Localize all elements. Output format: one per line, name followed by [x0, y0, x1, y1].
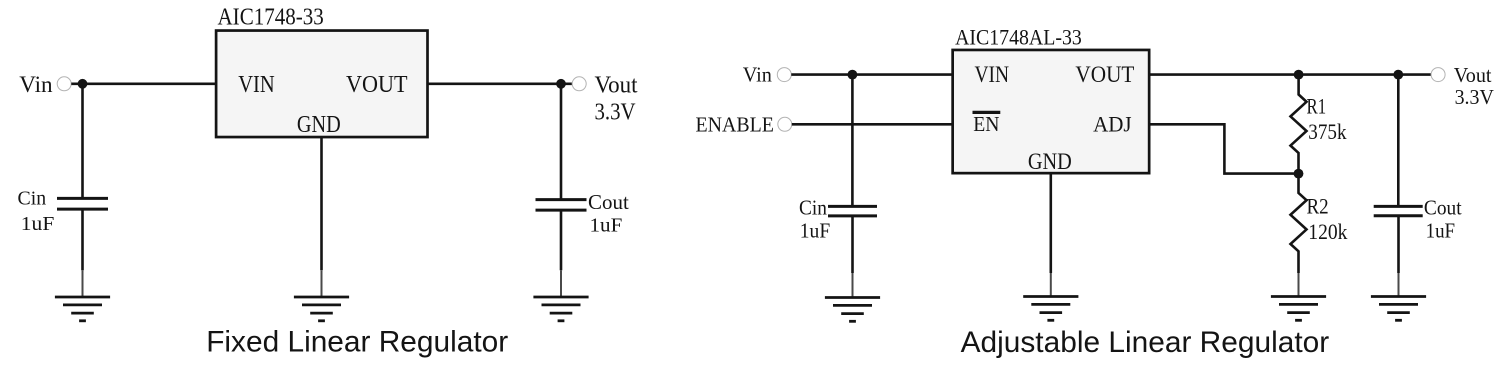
svg-text:1uF: 1uF [1426, 219, 1456, 243]
ground symbol under U1 GND [294, 297, 349, 321]
wire junction down to Cout (right) [1397, 75, 1400, 206]
junction node Vin/Cin [78, 79, 88, 89]
ground symbol under Cin (right) [825, 298, 880, 322]
wire U1 GND to ground [320, 138, 323, 271]
terminal Vout (open circle) [572, 77, 586, 91]
junction node VOUT/R1 [1294, 70, 1304, 80]
junction node R1/R2/ADJ [1294, 169, 1304, 179]
wire U2 ADJ to R1/R2 junction [1151, 124, 1299, 173]
junction node VOUT/Cout (right) [1393, 70, 1403, 80]
svg-text:VIN: VIN [238, 71, 275, 98]
svg-text:1uF: 1uF [800, 219, 830, 243]
svg-text:1uF: 1uF [590, 215, 623, 237]
junction node Vin/Cin (right) [848, 70, 858, 80]
terminal Vin (open circle) [57, 77, 71, 91]
svg-text:VOUT: VOUT [346, 71, 408, 98]
wire Cout to ground (right) [1397, 216, 1400, 273]
wire Vin to U1 VIN [71, 83, 216, 86]
capacitor Cout 1uF (left) [536, 200, 587, 211]
wire Vin to U2 VIN [791, 73, 953, 76]
svg-text:ADJ: ADJ [1093, 111, 1132, 136]
ground lead wire (Cout right) [1398, 273, 1400, 297]
junction node Vout/Cout [556, 79, 566, 89]
capacitor Cin 1uF (left) [57, 198, 108, 209]
wire Cin to ground [81, 210, 84, 271]
wire junction down to Cin (right) [851, 75, 854, 206]
ground symbol under U2 GND [1023, 297, 1078, 321]
svg-text:Vout: Vout [595, 73, 638, 99]
ground lead wire (Cout left) [560, 270, 562, 297]
ground lead wire (R2) [1298, 273, 1300, 297]
svg-text:1uF: 1uF [21, 213, 55, 235]
wire ENABLE to U2 EN [792, 123, 953, 126]
ground symbol under Cin [55, 297, 110, 321]
wire junction down to Cout [560, 84, 563, 200]
resistor R1 375k (zigzag) [1291, 75, 1307, 174]
wire Cout to ground [560, 211, 563, 271]
svg-text:Cin: Cin [18, 189, 47, 210]
terminal Vin right (open circle) [777, 68, 791, 82]
ground lead wire (Cin left) [82, 270, 84, 297]
terminal ENABLE (open circle) [778, 117, 792, 131]
capacitor Cin 1uF (right) [828, 206, 877, 216]
svg-text:GND: GND [297, 111, 341, 138]
svg-text:Adjustable Linear Regulator: Adjustable Linear Regulator [961, 326, 1330, 359]
wire U1 VOUT to Vout terminal [428, 83, 572, 86]
svg-text:3.3V: 3.3V [595, 99, 637, 125]
ground lead wire (U2 GND) [1050, 273, 1052, 297]
svg-text:3.3V: 3.3V [1455, 85, 1494, 109]
svg-text:R2: R2 [1307, 193, 1329, 218]
svg-text:AIC1748AL-33: AIC1748AL-33 [955, 25, 1082, 50]
terminal Vout right (open circle) [1431, 68, 1445, 82]
regulator IC U2 AIC1748AL-33 box [953, 50, 1150, 173]
svg-text:Vin: Vin [743, 63, 772, 87]
ground symbol under Cout (right) [1371, 297, 1426, 321]
svg-text:VIN: VIN [975, 62, 1010, 87]
svg-text:Vout: Vout [1454, 63, 1492, 87]
svg-text:AIC1748-33: AIC1748-33 [218, 3, 324, 30]
svg-text:ENABLE: ENABLE [696, 112, 774, 136]
capacitor Cout 1uF (right) [1374, 206, 1423, 215]
svg-text:Cout: Cout [1424, 196, 1462, 220]
wire Cin to ground (right) [851, 216, 854, 273]
svg-text:Cout: Cout [588, 190, 629, 214]
svg-text:VOUT: VOUT [1075, 62, 1134, 87]
ground lead wire (U1 GND) [321, 270, 323, 297]
resistor R2 120k (zigzag) [1291, 174, 1307, 273]
wire junction down to Cin [81, 84, 84, 198]
ground lead wire (Cin right) [852, 273, 854, 298]
wire U2 GND to ground [1050, 174, 1053, 273]
svg-text:120k: 120k [1308, 219, 1347, 244]
ground symbol under Cout [533, 297, 588, 321]
svg-text:Fixed Linear Regulator: Fixed Linear Regulator [206, 326, 508, 359]
wire U2 VOUT to Vout terminal (right) [1150, 73, 1431, 76]
ground symbol under R2 [1271, 297, 1326, 321]
svg-text:GND: GND [1028, 149, 1072, 174]
svg-text:375k: 375k [1308, 119, 1346, 144]
svg-text:R1: R1 [1307, 93, 1327, 118]
regulator IC U1 AIC1748-33 box [216, 31, 427, 138]
svg-text:Cin: Cin [799, 196, 827, 220]
svg-text:Vin: Vin [19, 72, 53, 98]
overline for EN pin label [973, 111, 1001, 114]
svg-text:EN: EN [973, 112, 999, 136]
